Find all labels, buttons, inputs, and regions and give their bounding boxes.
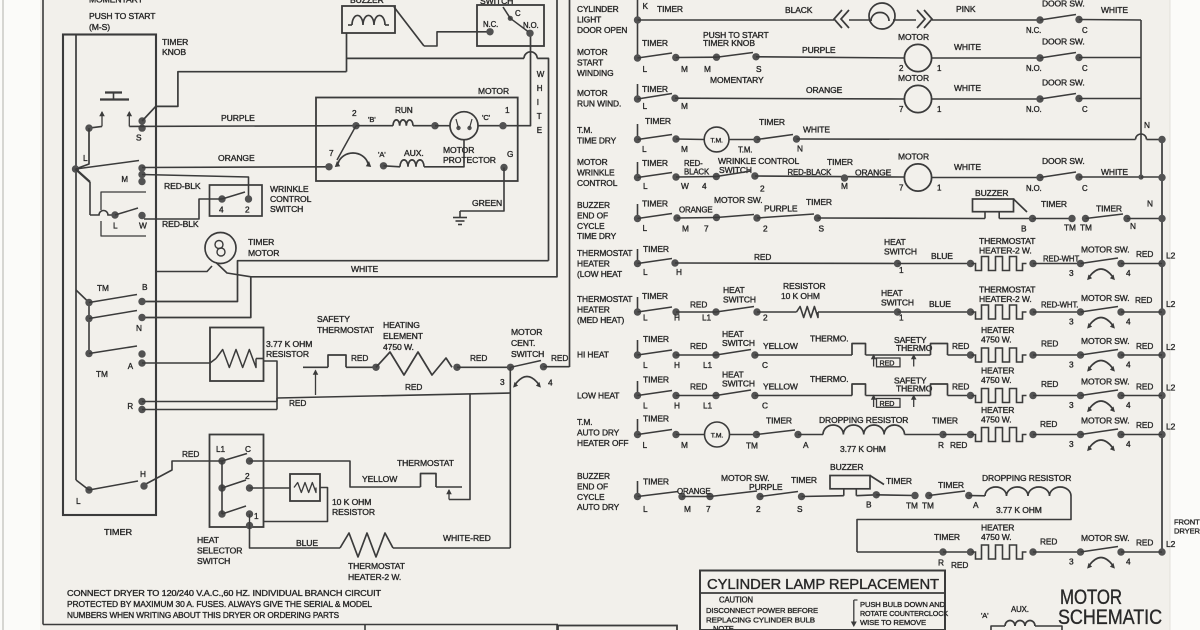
svg-text:MOTOR: MOTOR [898, 73, 929, 83]
svg-text:3: 3 [1069, 400, 1074, 410]
svg-text:YELLOW: YELLOW [763, 382, 798, 392]
svg-text:NOTE: NOTE [713, 624, 734, 630]
svg-text:HEATER-2 W.: HEATER-2 W. [979, 246, 1032, 256]
svg-text:START: START [577, 57, 603, 67]
svg-text:RED: RED [1136, 382, 1153, 392]
svg-text:MOTOR SW.: MOTOR SW. [1081, 416, 1130, 426]
svg-text:MOTOR: MOTOR [898, 32, 929, 42]
svg-text:(LOW HEAT: (LOW HEAT [577, 269, 622, 279]
svg-text:HEAT: HEAT [723, 285, 745, 295]
svg-text:N: N [1130, 221, 1136, 231]
svg-text:L: L [643, 101, 648, 111]
svg-text:N.C.: N.C. [483, 20, 498, 29]
svg-text:ORANGE: ORANGE [677, 487, 711, 496]
svg-text:N.O.: N.O. [1026, 105, 1042, 114]
svg-text:M: M [682, 224, 689, 234]
svg-text:MOMENTARY: MOMENTARY [710, 75, 764, 85]
svg-text:L1: L1 [702, 313, 712, 323]
svg-text:RED: RED [1041, 339, 1058, 349]
svg-text:M: M [681, 64, 688, 74]
svg-text:4750 W.: 4750 W. [383, 342, 414, 352]
svg-text:4: 4 [1126, 439, 1131, 449]
svg-text:THERMOSTAT: THERMOSTAT [979, 236, 1035, 246]
svg-text:7: 7 [899, 184, 904, 193]
svg-text:WHITE: WHITE [954, 42, 981, 52]
svg-text:L2: L2 [1166, 342, 1176, 352]
svg-text:B: B [142, 282, 148, 292]
svg-text:MOTOR: MOTOR [478, 86, 509, 96]
svg-text:DOOR SW.: DOOR SW. [1042, 0, 1085, 9]
svg-text:L: L [643, 64, 648, 74]
svg-text:HEAT: HEAT [197, 535, 220, 545]
svg-text:4: 4 [702, 181, 707, 191]
svg-text:W: W [537, 70, 545, 79]
svg-text:DOOR SW.: DOOR SW. [1042, 156, 1085, 166]
svg-text:THERMO.: THERMO. [810, 374, 849, 384]
svg-text:BLUE: BLUE [929, 299, 951, 309]
svg-text:H: H [676, 267, 682, 277]
svg-text:MOTOR SW.: MOTOR SW. [1081, 245, 1130, 255]
svg-text:4750 W.: 4750 W. [981, 532, 1012, 542]
svg-text:M: M [121, 175, 128, 184]
svg-text:CONTROL: CONTROL [577, 178, 618, 188]
svg-text:PURPLE: PURPLE [764, 204, 798, 214]
svg-text:RED: RED [1136, 341, 1153, 351]
svg-text:N: N [1147, 199, 1153, 209]
svg-text:1: 1 [937, 105, 942, 114]
svg-text:TIMER: TIMER [642, 84, 668, 94]
svg-text:L2: L2 [1166, 299, 1176, 309]
svg-text:TM: TM [97, 283, 109, 293]
svg-text:SWITCH: SWITCH [270, 204, 303, 214]
svg-text:YELLOW: YELLOW [763, 341, 798, 351]
svg-text:TIMER: TIMER [827, 157, 853, 167]
svg-text:THERMOSTAT: THERMOSTAT [577, 294, 632, 304]
svg-text:GREEN: GREEN [472, 198, 502, 208]
svg-text:SAFETY: SAFETY [317, 314, 350, 324]
svg-text:THERMO.: THERMO. [810, 334, 849, 344]
svg-text:H: H [674, 360, 680, 370]
svg-text:TIMER: TIMER [643, 375, 669, 385]
svg-text:L: L [643, 401, 648, 411]
svg-text:END OF: END OF [577, 210, 608, 220]
svg-text:M: M [704, 64, 711, 74]
svg-text:PROTECTOR: PROTECTOR [443, 155, 496, 165]
svg-text:T.M.: T.M. [738, 146, 752, 155]
svg-text:H: H [674, 401, 680, 411]
svg-text:TIMER: TIMER [642, 199, 668, 209]
svg-text:TIMER KNOB: TIMER KNOB [703, 38, 755, 48]
svg-text:RED: RED [880, 358, 895, 367]
svg-text:WHITE: WHITE [1101, 167, 1128, 177]
svg-text:WISE TO REMOVE: WISE TO REMOVE [860, 618, 926, 627]
svg-text:ELEMENT: ELEMENT [383, 331, 424, 341]
svg-text:RESISTOR: RESISTOR [266, 349, 309, 359]
svg-text:MOTOR: MOTOR [577, 88, 608, 98]
svg-text:TIME DRY: TIME DRY [577, 135, 617, 145]
svg-text:HEAT: HEAT [884, 237, 906, 247]
svg-text:BUZZER: BUZZER [830, 462, 863, 472]
svg-text:I: I [537, 98, 539, 107]
svg-text:WRINKLE: WRINKLE [270, 184, 309, 194]
svg-text:2: 2 [245, 205, 250, 215]
svg-text:L: L [76, 496, 81, 506]
svg-text:ORANGE: ORANGE [806, 85, 843, 95]
svg-text:SWITCH: SWITCH [723, 295, 756, 305]
svg-text:L2: L2 [1166, 422, 1176, 432]
svg-text:BUZZER: BUZZER [350, 0, 384, 5]
svg-text:TIMER: TIMER [248, 237, 274, 247]
svg-text:T.M.: T.M. [577, 125, 592, 135]
svg-text:PURPLE: PURPLE [221, 113, 255, 123]
svg-text:3: 3 [500, 377, 505, 387]
svg-text:TIMER: TIMER [759, 117, 785, 127]
svg-text:L: L [643, 440, 648, 450]
svg-text:3: 3 [1069, 439, 1074, 449]
svg-text:4: 4 [548, 378, 553, 388]
svg-text:W: W [139, 221, 147, 231]
svg-text:TIMER: TIMER [657, 4, 683, 14]
svg-text:RESISTOR: RESISTOR [332, 507, 375, 517]
svg-text:4: 4 [1126, 268, 1131, 278]
svg-text:S: S [756, 64, 762, 74]
svg-text:HEATER: HEATER [981, 325, 1014, 335]
svg-text:L1: L1 [216, 444, 226, 454]
svg-text:1: 1 [937, 64, 942, 73]
svg-text:DROPPING RESISTOR: DROPPING RESISTOR [982, 473, 1071, 483]
svg-text:'C': 'C' [482, 113, 491, 122]
svg-text:TIMER: TIMER [934, 532, 960, 542]
svg-text:RED-WHT.: RED-WHT. [1041, 301, 1078, 310]
svg-text:H: H [140, 469, 146, 479]
svg-text:7: 7 [706, 504, 711, 514]
svg-text:END OF: END OF [577, 481, 608, 491]
svg-text:3: 3 [1069, 360, 1074, 370]
svg-text:'A': 'A' [378, 150, 386, 159]
svg-text:CAUTION: CAUTION [719, 596, 753, 605]
svg-text:MOTOR SW.: MOTOR SW. [1081, 533, 1130, 543]
svg-text:SWITCH: SWITCH [884, 247, 917, 257]
svg-text:G: G [507, 149, 513, 159]
svg-text:MOTOR: MOTOR [577, 47, 608, 57]
svg-text:TIMER: TIMER [162, 37, 188, 47]
svg-text:MOTOR SW.: MOTOR SW. [714, 195, 763, 205]
svg-text:C: C [762, 360, 768, 370]
svg-text:2: 2 [899, 64, 904, 73]
svg-text:CYLINDER: CYLINDER [577, 4, 619, 14]
svg-text:DROPPING RESISTOR: DROPPING RESISTOR [819, 415, 908, 425]
svg-text:10 K OHM: 10 K OHM [332, 497, 371, 507]
svg-text:RED: RED [1136, 249, 1153, 259]
svg-text:YELLOW: YELLOW [362, 474, 398, 484]
svg-text:PURPLE: PURPLE [749, 482, 783, 492]
svg-text:BUZZER: BUZZER [975, 188, 1008, 198]
svg-text:DRYER: DRYER [1174, 527, 1200, 536]
svg-text:CENT.: CENT. [511, 338, 535, 348]
svg-text:TIMER: TIMER [645, 116, 671, 126]
svg-text:RED: RED [952, 382, 969, 392]
svg-text:DOOR SW.: DOOR SW. [1042, 37, 1085, 47]
svg-text:(M-S): (M-S) [89, 22, 110, 32]
svg-text:4750 W.: 4750 W. [981, 335, 1012, 345]
svg-text:CYCLE: CYCLE [577, 221, 605, 231]
svg-text:7: 7 [704, 224, 709, 234]
svg-text:PROTECTED BY MAXIMUM 30 A. FUS: PROTECTED BY MAXIMUM 30 A. FUSES. ALWAYS… [67, 600, 373, 609]
svg-text:N.O.: N.O. [1026, 64, 1042, 73]
svg-text:BUZZER: BUZZER [577, 200, 610, 210]
svg-text:B: B [866, 500, 872, 510]
svg-text:3.77 K OHM: 3.77 K OHM [266, 339, 312, 349]
svg-text:TM: TM [906, 501, 918, 511]
svg-text:4: 4 [219, 205, 224, 215]
svg-text:RED: RED [1136, 538, 1153, 548]
svg-text:W: W [681, 181, 689, 191]
svg-text:WHITE: WHITE [1101, 5, 1128, 15]
svg-text:S: S [797, 504, 803, 514]
svg-text:2: 2 [352, 108, 357, 118]
svg-text:T: T [537, 112, 542, 121]
svg-text:C: C [245, 444, 251, 454]
svg-text:BLUE: BLUE [931, 251, 953, 261]
svg-text:TIMER: TIMER [791, 475, 817, 485]
svg-text:KNOB: KNOB [162, 47, 186, 57]
svg-text:A: A [128, 362, 134, 371]
svg-text:AUTO DRY: AUTO DRY [577, 427, 620, 437]
svg-text:L2: L2 [1166, 251, 1176, 261]
svg-text:MOTOR SW.: MOTOR SW. [1081, 377, 1130, 387]
svg-text:DOOR SW.: DOOR SW. [1042, 78, 1085, 88]
svg-text:K: K [643, 1, 649, 11]
svg-text:WHITE: WHITE [351, 264, 379, 274]
svg-text:2: 2 [760, 184, 765, 194]
svg-text:RED: RED [1041, 379, 1058, 389]
svg-text:WHITE: WHITE [954, 162, 981, 172]
svg-text:THERMOSTAT: THERMOSTAT [979, 285, 1035, 295]
svg-text:R: R [127, 402, 133, 411]
svg-text:THERMO: THERMO [896, 343, 933, 353]
svg-text:BLACK: BLACK [785, 5, 813, 15]
svg-text:MOMENTARY: MOMENTARY [89, 0, 144, 5]
svg-text:M: M [684, 504, 691, 514]
svg-text:L: L [83, 153, 88, 163]
svg-text:L: L [643, 313, 648, 323]
svg-text:T.M.: T.M. [710, 137, 723, 144]
svg-text:RED: RED [690, 382, 707, 392]
svg-text:RED-BLACK: RED-BLACK [788, 168, 833, 177]
svg-text:NUMBERS WHEN WRITING ABOUT THI: NUMBERS WHEN WRITING ABOUT THIS DRYER OR… [67, 611, 340, 620]
svg-text:SWITCH: SWITCH [722, 338, 755, 348]
svg-text:2: 2 [756, 504, 761, 514]
svg-text:WRINKLE: WRINKLE [577, 167, 615, 177]
svg-text:B: B [1021, 224, 1027, 234]
svg-text:THERMO: THERMO [896, 384, 933, 394]
svg-text:4: 4 [1126, 317, 1131, 327]
svg-text:RED: RED [690, 341, 707, 351]
svg-text:C: C [1082, 64, 1088, 73]
svg-text:'A': 'A' [981, 611, 989, 620]
svg-text:RED: RED [405, 382, 422, 392]
svg-text:HEATER-2 W.: HEATER-2 W. [348, 572, 401, 582]
svg-text:AUX.: AUX. [404, 148, 424, 158]
svg-text:HEATER: HEATER [577, 258, 610, 268]
svg-text:1: 1 [937, 184, 942, 193]
svg-text:DOOR OPEN: DOOR OPEN [577, 25, 627, 35]
svg-text:1: 1 [899, 313, 904, 323]
svg-text:RED: RED [1040, 419, 1057, 429]
svg-text:RED: RED [690, 300, 707, 310]
svg-text:RED: RED [1136, 420, 1153, 430]
svg-text:CONTROL: CONTROL [270, 194, 312, 204]
svg-text:T.M.: T.M. [577, 417, 592, 427]
svg-text:L: L [643, 181, 648, 191]
svg-text:FRONT: FRONT [1174, 518, 1200, 527]
svg-text:RED: RED [182, 449, 199, 459]
svg-text:TIME DRY: TIME DRY [577, 231, 617, 241]
svg-text:MOTOR: MOTOR [443, 145, 474, 155]
svg-text:RED: RED [551, 353, 568, 363]
svg-text:A: A [973, 500, 979, 510]
svg-text:HEATER-2 W.: HEATER-2 W. [979, 294, 1032, 304]
svg-text:MOTOR: MOTOR [898, 152, 929, 162]
svg-text:SWITCH: SWITCH [722, 379, 755, 389]
svg-text:HEATING: HEATING [383, 320, 420, 330]
svg-text:HEATER: HEATER [981, 366, 1014, 376]
svg-text:WHITE: WHITE [803, 125, 830, 135]
svg-text:7: 7 [899, 105, 904, 114]
svg-text:E: E [537, 126, 542, 135]
svg-text:M: M [681, 144, 688, 154]
svg-text:SWITCH: SWITCH [881, 298, 914, 308]
svg-text:ORANGE: ORANGE [218, 153, 255, 163]
svg-text:TIMER: TIMER [643, 334, 669, 344]
svg-text:RED-BLK: RED-BLK [164, 181, 201, 191]
svg-text:R: R [938, 440, 944, 450]
svg-text:SELECTOR: SELECTOR [197, 546, 242, 556]
svg-text:RED: RED [880, 399, 895, 408]
svg-text:R: R [938, 558, 944, 568]
svg-text:1: 1 [254, 511, 259, 521]
svg-text:PUSH BULB DOWN AND: PUSH BULB DOWN AND [860, 600, 945, 609]
svg-text:TIMER: TIMER [938, 480, 964, 490]
svg-text:N.C.: N.C. [1026, 26, 1041, 35]
svg-text:TIMER: TIMER [642, 158, 668, 168]
svg-text:L: L [643, 504, 648, 514]
svg-text:HEATER: HEATER [981, 405, 1014, 415]
svg-text:MOTOR SW.: MOTOR SW. [1081, 293, 1130, 303]
svg-text:TM: TM [96, 369, 108, 379]
svg-text:HI HEAT: HI HEAT [577, 350, 609, 360]
svg-text:4: 4 [1126, 557, 1131, 567]
svg-text:RED: RED [754, 252, 771, 262]
svg-text:TIMER: TIMER [1096, 204, 1122, 214]
svg-text:A: A [803, 440, 809, 450]
svg-text:SCHEMATIC: SCHEMATIC [1058, 606, 1162, 629]
svg-text:MOTOR: MOTOR [248, 248, 279, 258]
svg-text:L: L [113, 221, 118, 231]
svg-text:3: 3 [1069, 268, 1074, 278]
svg-text:CYLINDER LAMP REPLACEMENT: CYLINDER LAMP REPLACEMENT [707, 577, 939, 593]
svg-text:10 K OHM: 10 K OHM [781, 291, 820, 301]
svg-text:4750 W.: 4750 W. [981, 415, 1012, 425]
svg-text:TIMER: TIMER [642, 291, 668, 301]
svg-text:1: 1 [505, 105, 510, 115]
svg-text:H: H [674, 313, 680, 323]
svg-text:S: S [136, 133, 142, 143]
svg-text:L: L [642, 144, 647, 154]
svg-text:MOTOR: MOTOR [577, 157, 608, 167]
svg-text:TM: TM [1064, 223, 1076, 233]
svg-text:L: L [643, 267, 648, 277]
svg-text:BUZZER: BUZZER [577, 471, 610, 481]
svg-text:THERMOSTAT: THERMOSTAT [397, 458, 455, 468]
svg-text:2: 2 [763, 313, 768, 323]
svg-text:ROTATE COUNTERCLOCK: ROTATE COUNTERCLOCK [860, 609, 948, 618]
svg-text:TIMER: TIMER [932, 416, 958, 426]
svg-text:RED-WHT.: RED-WHT. [1043, 255, 1080, 264]
svg-text:BLACK: BLACK [684, 168, 710, 177]
svg-text:N.O.: N.O. [1026, 184, 1042, 193]
svg-text:WHITE-RED: WHITE-RED [443, 533, 491, 543]
svg-text:ORANGE: ORANGE [679, 206, 713, 215]
svg-text:N: N [136, 323, 142, 333]
svg-text:SWITCH: SWITCH [480, 0, 513, 6]
svg-text:L2: L2 [1166, 539, 1176, 549]
svg-text:N: N [1144, 120, 1150, 130]
svg-text:HEATER: HEATER [981, 523, 1014, 533]
svg-text:L: L [643, 360, 648, 370]
svg-text:ORANGE: ORANGE [855, 168, 892, 178]
svg-text:PINK: PINK [956, 4, 976, 14]
svg-text:L1: L1 [703, 360, 713, 370]
svg-text:TIMER: TIMER [1041, 199, 1067, 209]
svg-text:WHITE: WHITE [954, 83, 981, 93]
svg-text:LIGHT: LIGHT [577, 14, 601, 24]
svg-text:TIMER: TIMER [643, 244, 669, 254]
svg-text:TM: TM [746, 441, 758, 451]
svg-text:WINDING: WINDING [577, 68, 614, 78]
svg-text:M: M [681, 101, 688, 111]
svg-text:CONNECT DRYER TO 120/240 V.A.C: CONNECT DRYER TO 120/240 V.A.C.,60 HZ. I… [67, 589, 381, 598]
svg-text:M: M [841, 181, 848, 191]
svg-text:TIMER: TIMER [104, 527, 132, 537]
svg-text:2: 2 [763, 224, 768, 234]
svg-text:S: S [819, 224, 825, 234]
svg-text:LOW HEAT: LOW HEAT [577, 391, 619, 401]
svg-text:TIMER: TIMER [643, 414, 669, 424]
svg-text:4750 W.: 4750 W. [981, 375, 1012, 385]
svg-text:RED: RED [1040, 537, 1057, 547]
svg-text:C: C [1082, 26, 1088, 35]
svg-text:MOTOR SW.: MOTOR SW. [1081, 336, 1130, 346]
svg-text:3.77 K OHM: 3.77 K OHM [996, 505, 1042, 515]
svg-text:N: N [797, 144, 803, 154]
svg-text:C: C [1082, 184, 1088, 193]
svg-text:MOTOR: MOTOR [511, 327, 542, 337]
svg-text:H: H [537, 84, 543, 93]
svg-text:HEATER: HEATER [577, 304, 610, 314]
svg-text:7: 7 [329, 148, 334, 158]
svg-text:THERMOSTAT: THERMOSTAT [348, 561, 406, 571]
svg-text:L1: L1 [703, 401, 713, 411]
svg-text:PUSH TO START: PUSH TO START [89, 11, 156, 21]
svg-text:TIMER: TIMER [766, 416, 792, 426]
svg-text:DISCONNECT POWER BEFORE: DISCONNECT POWER BEFORE [706, 606, 818, 615]
svg-text:RED: RED [289, 398, 306, 408]
svg-text:RED-BLK: RED-BLK [162, 219, 199, 229]
svg-text:3.77 K OHM: 3.77 K OHM [840, 444, 886, 454]
svg-text:3: 3 [1069, 557, 1074, 567]
svg-text:AUX.: AUX. [1011, 605, 1029, 614]
